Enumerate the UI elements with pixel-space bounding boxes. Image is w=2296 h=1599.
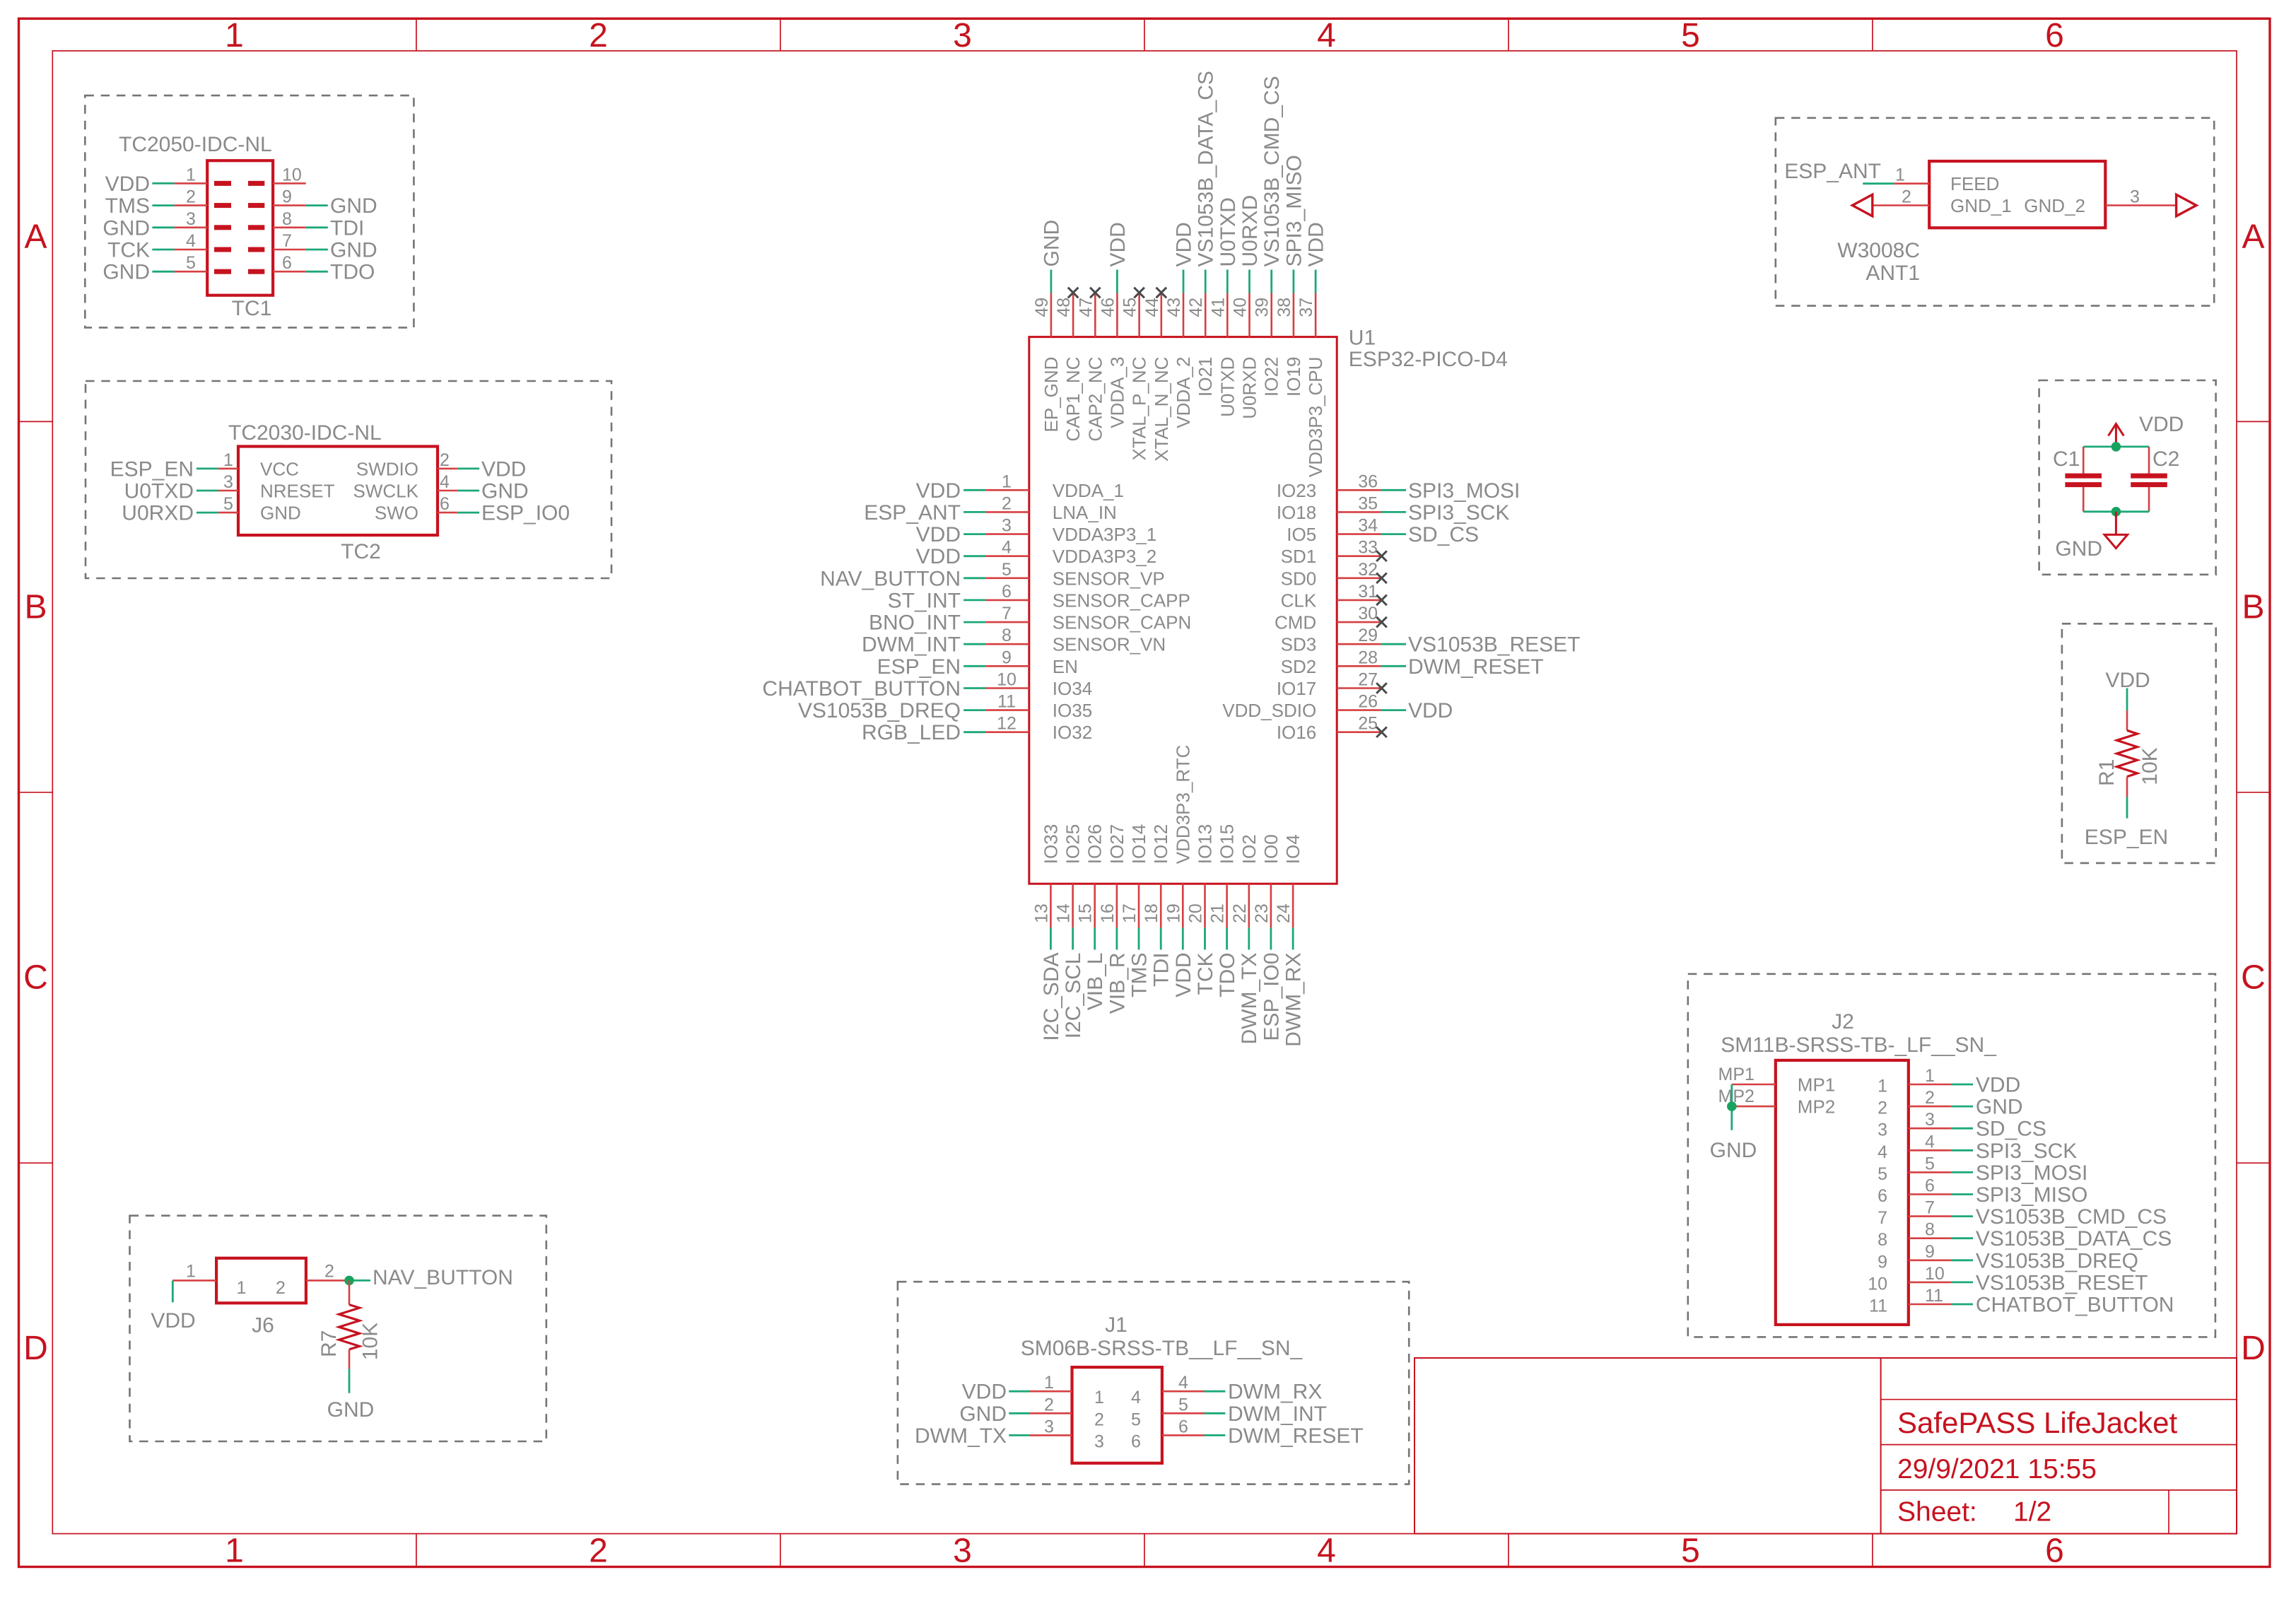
svg-text:28: 28 [1358, 648, 1378, 667]
svg-text:IO17: IO17 [1277, 678, 1316, 699]
svg-text:2: 2 [1002, 493, 1012, 513]
svg-text:17: 17 [1120, 903, 1140, 923]
svg-text:I2C_SDA: I2C_SDA [1040, 953, 1063, 1041]
U1 pin 3 (VDDA3P3_1) left, net VDD [916, 516, 1157, 547]
svg-text:TDO: TDO [330, 261, 375, 284]
U1 pin 44 (XTAL_N_NC) top, no-connect [1142, 288, 1172, 462]
svg-text:A: A [2242, 218, 2264, 256]
U1 pin 45 (XTAL_P_NC) top, no-connect [1120, 288, 1150, 461]
svg-text:A: A [24, 218, 47, 256]
svg-text:4: 4 [186, 231, 196, 251]
svg-text:29/9/2021 15:55: 29/9/2021 15:55 [1897, 1454, 2097, 1484]
resistor R7 [339, 1280, 360, 1369]
svg-text:IO32: IO32 [1053, 722, 1092, 743]
svg-text:10K: 10K [2138, 747, 2162, 785]
svg-text:24: 24 [1274, 903, 1294, 923]
U1 pin 41 (U0TXD) top, net U0TXD [1208, 197, 1240, 417]
svg-text:23: 23 [1252, 903, 1272, 923]
svg-text:SD0: SD0 [1281, 568, 1317, 589]
J6 pin 1, wire to VDD [172, 1261, 216, 1302]
svg-text:ESP_EN: ESP_EN [877, 655, 961, 679]
TC1 pin 6 (TDO) right [248, 253, 375, 284]
svg-text:TCK: TCK [107, 239, 150, 262]
U1 pin 18 (IO12) bottom, net TDI [1142, 824, 1173, 987]
svg-text:11: 11 [1925, 1286, 1943, 1306]
svg-text:VS1053B_DREQ: VS1053B_DREQ [798, 699, 961, 722]
TC1 pin 8 (TDI) right [248, 209, 364, 240]
U1 pin 24 (IO4) bottom, net DWM_RX [1274, 834, 1306, 1047]
svg-text:2: 2 [1094, 1410, 1104, 1429]
svg-text:GND: GND [102, 216, 150, 240]
svg-text:6: 6 [1178, 1417, 1188, 1436]
U1 pin 35 (IO18) right, net SPI3_SCK [1277, 493, 1510, 525]
svg-text:U0RXD: U0RXD [122, 502, 194, 525]
TC1 pin 9 (GND) right [248, 187, 377, 218]
dashed enclosure J2 [1688, 974, 2215, 1337]
svg-text:TMS: TMS [105, 194, 150, 218]
svg-text:IO4: IO4 [1282, 834, 1304, 864]
svg-text:1: 1 [237, 1278, 247, 1298]
U1 pin 15 (IO26) bottom, net VIB_L [1076, 824, 1108, 1010]
svg-text:VDD: VDD [1408, 699, 1453, 722]
svg-text:VDD: VDD [2139, 413, 2184, 436]
svg-text:DWM_TX: DWM_TX [915, 1424, 1007, 1448]
svg-text:VDD: VDD [916, 545, 961, 568]
junction on GND rail [2111, 507, 2121, 517]
svg-text:VDD: VDD [1305, 222, 1328, 266]
svg-text:GND_2: GND_2 [2024, 195, 2085, 216]
svg-text:3: 3 [953, 17, 972, 54]
svg-text:SWO: SWO [375, 503, 418, 524]
TC2 pin 2 (SWDIO) right, net VDD [356, 450, 526, 481]
svg-text:39: 39 [1253, 298, 1272, 317]
svg-text:ANT1: ANT1 [1865, 262, 1920, 285]
svg-text:5: 5 [1178, 1395, 1188, 1414]
ground symbol GND (open triangle) [2104, 512, 2128, 549]
svg-text:U0TXD: U0TXD [124, 480, 194, 503]
svg-text:SWDIO: SWDIO [356, 458, 418, 479]
svg-text:6: 6 [1002, 582, 1012, 602]
svg-text:DWM_RX: DWM_RX [1228, 1381, 1322, 1404]
svg-text:IO26: IO26 [1084, 824, 1106, 864]
dashed enclosure C1 C2 [2039, 380, 2216, 575]
U1 pin 36 (IO23) right, net SPI3_MOSI [1277, 471, 1521, 503]
dashed enclosure TC2 [86, 381, 611, 578]
svg-text:29: 29 [1358, 626, 1378, 645]
svg-text:VDDA3P3_2: VDDA3P3_2 [1053, 546, 1156, 567]
svg-text:SM06B-SRSS-TB__LF__SN_: SM06B-SRSS-TB__LF__SN_ [1021, 1337, 1304, 1360]
svg-text:TMS: TMS [1128, 953, 1152, 997]
svg-text:47: 47 [1076, 298, 1096, 317]
U1 pin 1 (VDDA_1) left, net VDD [916, 471, 1124, 503]
U1 pin 26 (VDD_SDIO) right, net VDD [1222, 692, 1453, 723]
svg-text:49: 49 [1032, 298, 1052, 317]
svg-text:IO35: IO35 [1053, 700, 1092, 721]
svg-text:7: 7 [282, 231, 292, 251]
svg-text:CMD: CMD [1275, 612, 1316, 633]
svg-text:R7: R7 [317, 1330, 341, 1357]
U1 pin 27 (IO17) right, no-connect [1277, 670, 1387, 700]
J1 pin 6 right, net DWM_RESET [1162, 1417, 1364, 1448]
svg-text:RGB_LED: RGB_LED [862, 721, 961, 744]
svg-text:27: 27 [1358, 670, 1378, 690]
svg-text:GND: GND [1040, 220, 1063, 267]
svg-text:VDD: VDD [916, 523, 961, 546]
svg-text:3: 3 [1002, 516, 1012, 536]
connector TC1 body [207, 160, 273, 295]
svg-text:ESP32-PICO-D4: ESP32-PICO-D4 [1349, 348, 1508, 371]
svg-text:1: 1 [225, 1533, 244, 1570]
svg-text:1: 1 [223, 450, 233, 470]
svg-text:SPI3_MISO: SPI3_MISO [1976, 1183, 2087, 1207]
J2 pin 2 right, net GND [1878, 1088, 2022, 1119]
J2 pin MP2 [1718, 1086, 1836, 1118]
svg-text:11: 11 [997, 692, 1016, 712]
svg-text:IO12: IO12 [1150, 824, 1171, 864]
title sheet number [1897, 1497, 2051, 1528]
svg-text:C: C [23, 959, 48, 997]
svg-text:1: 1 [1094, 1388, 1104, 1407]
U1 pin 9 (EN) left, net ESP_EN [877, 648, 1078, 679]
svg-text:SWCLK: SWCLK [353, 481, 419, 502]
svg-text:2: 2 [324, 1261, 334, 1281]
svg-text:2: 2 [440, 450, 450, 470]
svg-text:43: 43 [1164, 298, 1184, 317]
svg-text:5: 5 [223, 494, 233, 514]
svg-text:ESP_IO0: ESP_IO0 [481, 502, 570, 525]
U1 pin 23 (IO0) bottom, net ESP_IO0 [1252, 834, 1284, 1041]
svg-text:W3008C: W3008C [1837, 239, 1920, 262]
J2 pin 4 right, net SPI3_SCK [1878, 1132, 2077, 1163]
svg-text:SPI3_MISO: SPI3_MISO [1282, 155, 1306, 266]
svg-text:SENSOR_CAPN: SENSOR_CAPN [1053, 612, 1192, 633]
U1 pin 21 (IO15) bottom, net TDO [1208, 824, 1240, 997]
svg-text:LNA_IN: LNA_IN [1053, 502, 1117, 523]
U1 pin 49 (EP_GND) top, net GND [1032, 220, 1064, 433]
svg-text:IO25: IO25 [1062, 824, 1084, 864]
svg-text:IO13: IO13 [1195, 824, 1216, 864]
title block outline [1414, 1358, 2237, 1534]
svg-text:DWM_INT: DWM_INT [1228, 1402, 1327, 1426]
svg-text:26: 26 [1358, 692, 1378, 712]
svg-text:VDD: VDD [481, 457, 526, 481]
svg-text:8: 8 [1878, 1230, 1887, 1250]
svg-text:I2C_SCL: I2C_SCL [1062, 953, 1085, 1039]
svg-text:XTAL_P_NC: XTAL_P_NC [1129, 357, 1150, 461]
svg-text:6: 6 [1131, 1431, 1141, 1451]
svg-text:1: 1 [1895, 165, 1905, 185]
svg-text:4: 4 [1002, 538, 1012, 558]
svg-text:10: 10 [1925, 1264, 1945, 1284]
svg-text:GND: GND [1976, 1096, 2023, 1119]
svg-text:VDD: VDD [1106, 222, 1130, 266]
svg-text:33: 33 [1358, 538, 1378, 558]
svg-text:1: 1 [1002, 471, 1012, 491]
svg-text:VS1053B_DREQ: VS1053B_DREQ [1976, 1249, 2138, 1272]
svg-text:VS1053B_DATA_CS: VS1053B_DATA_CS [1976, 1227, 2172, 1250]
TC1 pin 5 (GND) left [102, 253, 231, 284]
U1 pin 5 (SENSOR_VP) left, net NAV_BUTTON [820, 560, 1165, 591]
svg-text:GND_1: GND_1 [1950, 195, 2012, 216]
svg-text:TDI: TDI [1150, 953, 1173, 987]
svg-text:11: 11 [1869, 1296, 1887, 1316]
svg-text:1: 1 [1878, 1077, 1887, 1096]
svg-text:ST_INT: ST_INT [888, 589, 961, 612]
U1 pin 29 (SD3) right, net VS1053B_RESET [1281, 626, 1581, 657]
svg-text:VDD: VDD [1173, 222, 1196, 266]
J2 pin 8 right, net VS1053B_DATA_CS [1878, 1220, 2172, 1251]
IC U1 ESP32-PICO-D4 body [1029, 337, 1337, 884]
TC1 pin 4 (TCK) left [107, 231, 231, 262]
wire VDD rail C1-C2 [2083, 446, 2149, 448]
svg-text:C1: C1 [2053, 447, 2080, 471]
svg-text:38: 38 [1275, 298, 1294, 317]
svg-text:19: 19 [1164, 903, 1183, 923]
svg-text:6: 6 [1925, 1176, 1935, 1196]
svg-text:25: 25 [1358, 714, 1378, 734]
svg-text:VDDA_2: VDDA_2 [1173, 357, 1194, 428]
ANT1 pin 3 (GND_2) with open arrow [2024, 187, 2196, 216]
svg-text:40: 40 [1231, 298, 1250, 317]
TC2 pin 5 (GND) left, net U0RXD [122, 494, 300, 525]
J1 pin 3 left, net DWM_TX [915, 1417, 1072, 1448]
svg-text:SD_CS: SD_CS [1408, 523, 1479, 546]
svg-text:IO15: IO15 [1217, 824, 1238, 864]
U1 pin 6 (SENSOR_CAPP) left, net ST_INT [888, 582, 1190, 613]
J1 inner pin numbers [1094, 1388, 1141, 1451]
svg-text:B: B [2242, 589, 2264, 626]
J2 pin 10 right, net VS1053B_RESET [1868, 1264, 2148, 1295]
svg-text:SENSOR_CAPP: SENSOR_CAPP [1053, 590, 1190, 611]
svg-text:2: 2 [589, 1533, 608, 1570]
svg-text:9: 9 [282, 187, 292, 207]
svg-text:TC1: TC1 [232, 297, 272, 320]
svg-text:10: 10 [282, 165, 302, 184]
svg-text:5: 5 [1681, 17, 1700, 54]
svg-text:3: 3 [1878, 1120, 1887, 1140]
U1 pin 4 (VDDA3P3_2) left, net VDD [916, 538, 1157, 569]
svg-text:VDDA_3: VDDA_3 [1106, 357, 1127, 428]
junction J6/R7 node [344, 1276, 354, 1286]
J2 pin 5 right, net SPI3_MOSI [1878, 1154, 2087, 1185]
U1 pin 7 (SENSOR_CAPN) left, net BNO_INT [869, 604, 1191, 635]
svg-text:CLK: CLK [1281, 590, 1317, 611]
J2 pin 9 right, net VS1053B_DREQ [1878, 1242, 2138, 1273]
svg-text:IO34: IO34 [1053, 678, 1092, 699]
svg-text:1: 1 [1925, 1066, 1935, 1086]
svg-text:IO21: IO21 [1195, 357, 1216, 397]
U1 pin 13 (IO33) bottom, net I2C_SDA [1031, 824, 1063, 1041]
svg-text:VIB_L: VIB_L [1084, 953, 1107, 1011]
U1 pin 31 (CLK) right, no-connect [1281, 582, 1387, 611]
svg-text:7: 7 [1002, 604, 1012, 623]
U1 pin 2 (LNA_IN) left, net ESP_ANT [864, 493, 1117, 525]
svg-text:J2: J2 [1832, 1010, 1854, 1033]
svg-text:Sheet:: Sheet: [1897, 1497, 1977, 1528]
svg-text:FEED: FEED [1950, 173, 1999, 194]
frame row dividers left [19, 421, 53, 1163]
ANT1 pin 1 (FEED), net ESP_ANT [1784, 160, 1999, 194]
U1 pin 38 (IO19) top, net SPI3_MISO [1275, 155, 1306, 397]
wire MP1/MP2 to GND [1730, 1084, 1733, 1130]
svg-text:IO2: IO2 [1238, 834, 1260, 864]
svg-text:SPI3_MOSI: SPI3_MOSI [1976, 1161, 2087, 1185]
J2 pin MP1 [1718, 1065, 1836, 1096]
svg-text:IO23: IO23 [1277, 480, 1316, 501]
capacitor C1 [2065, 447, 2102, 512]
svg-text:VCC: VCC [260, 458, 299, 479]
svg-text:4: 4 [1131, 1388, 1141, 1407]
svg-text:16: 16 [1098, 903, 1118, 923]
svg-text:6: 6 [282, 253, 292, 273]
svg-text:GND: GND [330, 194, 377, 218]
svg-text:IO18: IO18 [1277, 502, 1316, 523]
svg-text:VDD: VDD [151, 1309, 195, 1332]
svg-text:SD3: SD3 [1281, 634, 1317, 655]
svg-text:VDDA3P3_1: VDDA3P3_1 [1053, 524, 1156, 545]
U1 pin 30 (CMD) right, no-connect [1275, 604, 1387, 633]
svg-text:4: 4 [1178, 1373, 1188, 1393]
svg-text:5: 5 [1002, 560, 1012, 580]
J2 pin 6 right, net SPI3_MISO [1878, 1176, 2087, 1207]
svg-text:NRESET: NRESET [260, 481, 335, 502]
svg-text:SPI3_MOSI: SPI3_MOSI [1408, 479, 1520, 503]
svg-text:5: 5 [1131, 1410, 1141, 1429]
svg-text:MP1: MP1 [1718, 1065, 1755, 1084]
svg-text:1: 1 [186, 165, 196, 184]
U1 pin 25 (IO16) right, no-connect [1277, 714, 1387, 744]
svg-text:8: 8 [1925, 1220, 1935, 1240]
svg-text:VDD_SDIO: VDD_SDIO [1222, 700, 1316, 721]
svg-text:GND: GND [327, 1398, 375, 1422]
svg-text:TDO: TDO [1216, 953, 1239, 997]
U1 pin 32 (SD0) right, no-connect [1281, 560, 1387, 590]
J2 pin 7 right, net VS1053B_CMD_CS [1878, 1198, 2167, 1229]
svg-text:14: 14 [1054, 903, 1074, 923]
svg-text:8: 8 [1002, 626, 1012, 645]
svg-text:1: 1 [186, 1261, 196, 1281]
U1 pin 16 (IO27) bottom, net VIB_R [1098, 824, 1130, 1014]
svg-text:4: 4 [440, 472, 450, 492]
svg-text:3: 3 [223, 472, 233, 492]
svg-text:46: 46 [1098, 298, 1118, 317]
svg-text:DWM_INT: DWM_INT [862, 633, 961, 657]
TC1 pin 7 (GND) right [248, 231, 377, 262]
J1 pin 5 right, net DWM_INT [1162, 1395, 1327, 1426]
svg-text:BNO_INT: BNO_INT [869, 611, 961, 635]
svg-text:GND: GND [481, 480, 529, 503]
svg-text:U0TXD: U0TXD [1217, 357, 1238, 417]
svg-text:41: 41 [1208, 298, 1228, 317]
svg-text:R1: R1 [2095, 759, 2119, 786]
svg-text:1: 1 [225, 17, 244, 54]
U1 pin 46 (VDDA_3) top, net VDD [1098, 222, 1130, 428]
svg-text:31: 31 [1358, 582, 1378, 602]
U1 pin 19 (VDD3P3_RTC) bottom, net VDD [1164, 745, 1195, 997]
svg-text:3: 3 [2130, 187, 2140, 207]
svg-text:U0RXD: U0RXD [1239, 357, 1260, 419]
svg-text:GND: GND [260, 503, 301, 524]
J2 pin 11 right, net CHATBOT_BUTTON [1869, 1286, 2174, 1317]
svg-text:XTAL_N_NC: XTAL_N_NC [1151, 357, 1172, 462]
svg-text:2: 2 [589, 17, 608, 54]
svg-text:VS1053B_CMD_CS: VS1053B_CMD_CS [1260, 76, 1284, 266]
U1 pin 47 (CAP2_NC) top, no-connect [1076, 288, 1106, 442]
U1 pin 14 (IO25) bottom, net I2C_SCL [1054, 824, 1086, 1038]
svg-text:8: 8 [282, 209, 292, 229]
frame row dividers right [2237, 421, 2270, 1163]
svg-text:2: 2 [186, 187, 196, 207]
svg-text:VDD: VDD [916, 479, 961, 503]
svg-text:MP2: MP2 [1798, 1096, 1835, 1118]
svg-text:EN: EN [1053, 656, 1078, 677]
svg-text:22: 22 [1230, 903, 1250, 923]
U1 pin 43 (VDDA_2) top, net VDD [1164, 222, 1196, 428]
svg-text:4: 4 [1878, 1142, 1887, 1162]
svg-text:VDD: VDD [1976, 1074, 2020, 1097]
J1 pin 1 left, net VDD [962, 1373, 1072, 1404]
svg-text:VDD3P3_CPU: VDD3P3_CPU [1305, 357, 1326, 478]
svg-text:18: 18 [1142, 903, 1161, 923]
junction MP2 node [1727, 1101, 1737, 1111]
svg-text:MP2: MP2 [1718, 1086, 1755, 1106]
svg-text:3: 3 [1094, 1431, 1104, 1451]
U1 pin 39 (IO22) top, net VS1053B_CMD_CS [1253, 76, 1284, 397]
svg-text:34: 34 [1358, 516, 1378, 536]
svg-text:IO14: IO14 [1128, 824, 1149, 864]
svg-text:5: 5 [186, 253, 196, 273]
svg-text:ESP_ANT: ESP_ANT [864, 501, 961, 525]
svg-text:EP_GND: EP_GND [1041, 357, 1062, 433]
svg-text:SD2: SD2 [1281, 656, 1317, 677]
antenna ANT1 body [1929, 161, 2105, 228]
svg-text:GND: GND [330, 239, 377, 262]
svg-text:2: 2 [1878, 1099, 1887, 1118]
TC2 pin 4 (SWCLK) right, net GND [353, 472, 529, 503]
svg-text:IO27: IO27 [1106, 824, 1127, 864]
svg-text:7: 7 [1878, 1208, 1887, 1228]
wire VDD to R1 [2126, 689, 2128, 711]
U1 pin 28 (SD2) right, net DWM_RESET [1281, 648, 1544, 679]
U1 pin 12 (IO32) left, net RGB_LED [862, 714, 1092, 745]
ANT1 pin 2 (GND_1) with open arrow [1852, 187, 2011, 216]
dashed enclosure J6 [130, 1216, 546, 1441]
junction on VDD rail [2111, 442, 2121, 452]
svg-text:SENSOR_VP: SENSOR_VP [1053, 568, 1165, 589]
svg-text:13: 13 [1031, 903, 1051, 923]
J6 inner pin numbers [237, 1278, 286, 1298]
TC1 pin 10 right [248, 165, 306, 186]
svg-text:MP1: MP1 [1798, 1074, 1835, 1096]
svg-text:45: 45 [1120, 298, 1140, 317]
svg-text:3: 3 [1925, 1110, 1935, 1130]
svg-text:DWM_RX: DWM_RX [1282, 953, 1306, 1047]
svg-text:CAP1_NC: CAP1_NC [1062, 357, 1084, 442]
svg-text:SD_CS: SD_CS [1976, 1118, 2046, 1141]
svg-text:IO33: IO33 [1040, 824, 1061, 864]
svg-text:U1: U1 [1349, 326, 1376, 349]
svg-text:4: 4 [1925, 1132, 1935, 1152]
svg-text:IO16: IO16 [1277, 722, 1316, 743]
svg-text:VS1053B_RESET: VS1053B_RESET [1976, 1271, 2148, 1294]
svg-text:10: 10 [997, 670, 1017, 690]
wire R7 to GND [348, 1369, 351, 1393]
svg-text:2: 2 [276, 1278, 286, 1298]
svg-text:GND: GND [959, 1402, 1007, 1426]
svg-text:D: D [2241, 1330, 2266, 1367]
connector J1 body [1072, 1367, 1162, 1463]
svg-text:6: 6 [2045, 17, 2064, 54]
